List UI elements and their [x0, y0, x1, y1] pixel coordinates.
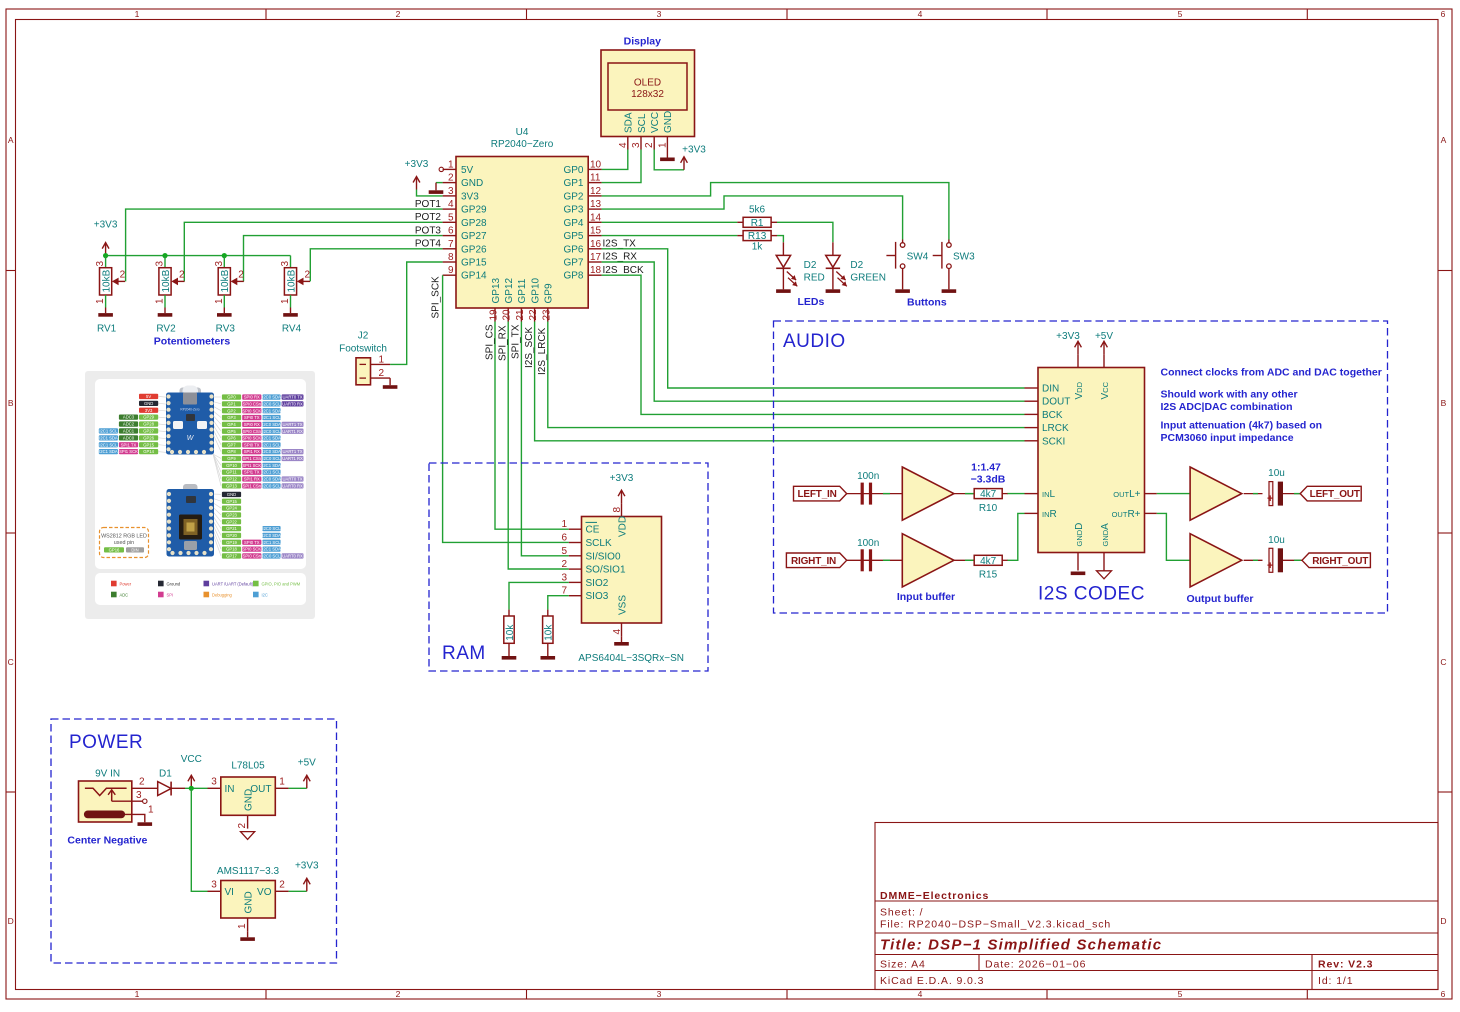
svg-text:SPI_TX: SPI_TX: [511, 324, 522, 359]
svg-text:File: RP2040−DSP−Small_V2.3.ki: File: RP2040−DSP−Small_V2.3.kicad_sch: [880, 919, 1111, 931]
svg-text:LEFT_OUT: LEFT_OUT: [1310, 489, 1360, 500]
svg-text:7: 7: [448, 239, 454, 250]
svg-text:DOUT: DOUT: [1042, 397, 1070, 408]
svg-text:Display: Display: [624, 36, 662, 48]
svg-text:UART0 TX: UART0 TX: [283, 395, 303, 400]
svg-text:14: 14: [590, 212, 602, 223]
wire POT3: [244, 236, 443, 282]
svg-text:GP6: GP6: [563, 244, 583, 255]
svg-text:100n: 100n: [857, 471, 879, 482]
svg-text:SW4: SW4: [907, 251, 929, 262]
svg-text:RP2040-Zero: RP2040-Zero: [180, 408, 199, 412]
svg-text:GP10: GP10: [530, 277, 541, 303]
svg-text:SPI1 RX: SPI1 RX: [244, 477, 260, 482]
pin 1 U4 (5V): [443, 168, 456, 170]
svg-text:DIN: DIN: [131, 547, 138, 552]
svg-text:VDD: VDD: [1074, 381, 1085, 399]
pin 3 U4 (3V3): [443, 195, 456, 197]
RAM section box: [429, 463, 708, 671]
svg-text:Should work with any other: Should work with any other: [1161, 389, 1298, 401]
svg-text:2: 2: [279, 880, 285, 891]
svg-text:5: 5: [448, 212, 454, 223]
pin 1 jack: [125, 814, 145, 822]
junction VCC: [189, 786, 194, 791]
ground RAM: [621, 636, 623, 642]
svg-text:I2S_SCK: I2S_SCK: [524, 327, 535, 368]
svg-text:GP13: GP13: [491, 277, 502, 303]
wire RV3 bottom: [223, 295, 225, 308]
resistor R13: [737, 235, 743, 237]
svg-text:8: 8: [448, 252, 454, 263]
pin 9 U4 (GP14): [443, 274, 456, 276]
svg-text:VCC: VCC: [1100, 381, 1111, 399]
global label RIGHT_OUT: [1302, 553, 1370, 568]
svg-text:Connect clocks from ADC and DA: Connect clocks from ADC and DAC together: [1161, 367, 1382, 379]
svg-text:I2C0 SDA: I2C0 SDA: [262, 477, 281, 482]
power +5V (codec): [1103, 342, 1105, 354]
power +3V3 (RAM): [621, 491, 623, 503]
svg-text:100n: 100n: [857, 538, 879, 549]
svg-text:10kB: 10kB: [220, 269, 231, 292]
wire VCC node: [185, 787, 208, 789]
wire I2S_RX (GP7) to DOUT: [602, 262, 1025, 401]
svg-text:SCL: SCL: [637, 113, 648, 133]
svg-text:I2C1 SCL: I2C1 SCL: [262, 540, 281, 545]
svg-text:Ground: Ground: [167, 581, 181, 586]
wire I2S_LRCK to LRCK: [548, 322, 1025, 428]
svg-text:GND: GND: [461, 178, 483, 189]
svg-text:10u: 10u: [1268, 535, 1285, 546]
svg-text:RV4: RV4: [282, 324, 302, 335]
svg-text:GP7: GP7: [227, 442, 236, 447]
svg-text:ADC1: ADC1: [123, 429, 135, 434]
svg-text:UART0 RX: UART0 RX: [282, 483, 303, 488]
svg-text:INL: INL: [1042, 489, 1056, 500]
wire R10 to INL: [1002, 493, 1008, 495]
svg-text:2: 2: [120, 270, 126, 281]
svg-text:GP17: GP17: [226, 553, 237, 558]
pin 23 U4 (GP9): [547, 308, 549, 322]
svg-text:GP26: GP26: [461, 244, 487, 255]
wire SIO2 pulldown: [509, 582, 569, 609]
svg-text:R10: R10: [979, 503, 998, 514]
svg-text:4: 4: [918, 989, 923, 999]
wire GP2 to SW3: [602, 183, 949, 240]
regulator U? L78L05: [221, 777, 275, 815]
svg-text:GND: GND: [144, 401, 153, 406]
svg-text:DMME−Electronics: DMME−Electronics: [880, 890, 989, 902]
svg-text:GP26: GP26: [143, 435, 154, 440]
wire buffer L out: [1244, 493, 1263, 495]
connector J2: [356, 358, 371, 385]
svg-text:12: 12: [590, 186, 602, 197]
pin 15 U4 (GP5): [588, 235, 601, 237]
svg-text:I2S_TX: I2S_TX: [603, 239, 637, 250]
svg-text:GP3: GP3: [563, 205, 583, 216]
svg-text:UART0 TX: UART0 TX: [283, 477, 303, 482]
svg-text:I2C1 SCL: I2C1 SCL: [262, 442, 281, 447]
pin 5 RAM (SI/SIO0): [569, 555, 582, 557]
pin 2 L78L05 GND: [247, 815, 249, 828]
svg-text:SCLK: SCLK: [586, 538, 612, 549]
svg-text:RIGHT_OUT: RIGHT_OUT: [1312, 556, 1368, 567]
svg-text:9V IN: 9V IN: [95, 769, 120, 780]
junction RV1 top: [103, 253, 108, 258]
svg-text:R15: R15: [979, 570, 998, 581]
wire 10u to RIGHT_OUT: [1283, 559, 1302, 561]
svg-text:C: C: [1440, 657, 1446, 667]
svg-text:RIGHT_IN: RIGHT_IN: [791, 556, 836, 567]
svg-text:Power: Power: [120, 581, 132, 586]
svg-text:Rev: V2.3: Rev: V2.3: [1318, 959, 1373, 971]
svg-text:VCC: VCC: [650, 112, 661, 133]
svg-text:SPI_SCK: SPI_SCK: [431, 276, 442, 319]
ground L78L05 (open triangle): [241, 832, 255, 840]
svg-text:+3V3: +3V3: [405, 159, 429, 170]
svg-text:GP15: GP15: [226, 499, 237, 504]
wire AMS1117 VO to +3V3: [289, 890, 307, 892]
wire RIGHT_IN to buffer: [847, 559, 903, 561]
svg-text:2: 2: [379, 368, 385, 379]
svg-text:3: 3: [155, 261, 166, 267]
svg-text:SPI: SPI: [167, 592, 174, 597]
svg-text:AUDIO: AUDIO: [783, 331, 846, 352]
capacitor 10u (right): [1269, 548, 1273, 572]
pin codec BCK: [1025, 413, 1039, 415]
svg-text:RED: RED: [804, 273, 825, 284]
wire GP14 / SPI_SCK: [443, 275, 569, 542]
svg-text:SPI0 RX: SPI0 RX: [244, 395, 260, 400]
svg-text:SPI0 SCK: SPI0 SCK: [242, 408, 261, 413]
pin 1 AMS1117 GND: [247, 918, 249, 931]
svg-text:5: 5: [1178, 9, 1183, 19]
svg-text:CE: CE: [586, 525, 600, 536]
svg-text:3: 3: [136, 790, 142, 801]
svg-text:2: 2: [644, 142, 655, 148]
junction RV3 top: [222, 253, 227, 258]
svg-text:I2C0 SCL: I2C0 SCL: [262, 526, 281, 531]
pin codec SCKI: [1025, 440, 1039, 442]
svg-text:I2S CODEC: I2S CODEC: [1038, 584, 1145, 605]
pin 2 jack: [132, 787, 158, 789]
svg-text:B: B: [8, 398, 14, 408]
svg-text:UART1 RX: UART1 RX: [282, 456, 303, 461]
svg-text:GND: GND: [663, 111, 674, 133]
ground RV1: [105, 308, 107, 314]
svg-text:3V3: 3V3: [461, 191, 479, 202]
svg-text:2: 2: [561, 559, 567, 570]
svg-text:6: 6: [1441, 9, 1446, 19]
svg-text:5: 5: [561, 546, 567, 557]
ground display: [666, 150, 668, 158]
title block: [875, 823, 1438, 990]
svg-text:3: 3: [657, 9, 662, 19]
power +3V3 (U4): [416, 178, 418, 190]
svg-text:SI/SIO0: SI/SIO0: [586, 551, 621, 562]
svg-text:GP0: GP0: [563, 165, 583, 176]
svg-text:POT2: POT2: [415, 212, 442, 223]
svg-text:2: 2: [238, 270, 244, 281]
global label LEFT_IN: [794, 486, 847, 501]
svg-text:KiCad E.D.A. 9.0.3: KiCad E.D.A. 9.0.3: [880, 975, 984, 987]
svg-text:+3V3: +3V3: [610, 473, 634, 484]
svg-text:ADC: ADC: [120, 592, 129, 597]
wire GP3 to SW4: [602, 196, 903, 240]
svg-text:GP4: GP4: [227, 422, 236, 427]
svg-text:1: 1: [214, 298, 225, 304]
svg-text:Input buffer: Input buffer: [897, 591, 955, 603]
svg-text:4: 4: [448, 199, 454, 210]
pin 3 RAM (SIO2): [569, 581, 582, 583]
svg-text:2: 2: [448, 173, 454, 184]
wire buffer R to R15: [954, 559, 975, 561]
svg-text:3V3: 3V3: [145, 408, 153, 413]
LED D2 RED: [782, 242, 784, 255]
svg-text:SPI0 CSn: SPI0 CSn: [243, 429, 262, 434]
svg-text:SPI1 CSn: SPI1 CSn: [243, 456, 262, 461]
svg-text:GP4: GP4: [563, 218, 583, 229]
svg-text:SPI1 CSn: SPI1 CSn: [243, 483, 262, 488]
svg-text:4k7: 4k7: [980, 556, 997, 567]
svg-text:2: 2: [139, 777, 145, 788]
svg-text:6: 6: [1441, 989, 1446, 999]
pin 10 U4 (GP0): [588, 168, 601, 170]
svg-text:GP28: GP28: [461, 218, 487, 229]
wire GP5 to R13: [602, 235, 738, 237]
svg-text:5V: 5V: [461, 165, 474, 176]
wire SPI_CS: [495, 322, 569, 530]
power +3V3 (codec): [1077, 342, 1079, 354]
svg-text:SO/SIO1: SO/SIO1: [586, 565, 626, 576]
svg-text:16: 16: [590, 239, 602, 250]
pin 12 U4 (GP2): [588, 195, 601, 197]
svg-text:SCKI: SCKI: [1042, 436, 1065, 447]
pin 3 Display (SCL): [640, 137, 642, 150]
svg-text:GP12: GP12: [504, 277, 515, 303]
svg-text:D2: D2: [804, 260, 817, 271]
svg-text:PCM3060 input impedance: PCM3060 input impedance: [1161, 432, 1294, 444]
ground RV2: [164, 308, 166, 314]
svg-text:GP1: GP1: [563, 178, 583, 189]
wire GP4 to R1: [602, 221, 738, 223]
svg-text:19: 19: [489, 309, 500, 321]
svg-text:I2C1 SCL: I2C1 SCL: [99, 442, 118, 447]
svg-text:GP10: GP10: [226, 463, 237, 468]
svg-text:3: 3: [95, 261, 106, 267]
pin codec DOUT: [1025, 400, 1039, 402]
svg-text:I2C0 SDA: I2C0 SDA: [262, 533, 281, 538]
resistor R1: [737, 221, 743, 223]
svg-text:POT4: POT4: [415, 239, 442, 250]
pin codec INR: [1025, 512, 1039, 514]
ground RV3: [223, 308, 225, 314]
svg-text:I2S_BCK: I2S_BCK: [603, 265, 644, 276]
svg-text:AMS1117−3.3: AMS1117−3.3: [217, 866, 280, 877]
svg-text:Title: DSP−1 Simplified Schema: Title: DSP−1 Simplified Schematic: [880, 937, 1162, 954]
power +3V3 (potentiometers): [105, 244, 107, 256]
svg-text:ADC3: ADC3: [123, 415, 135, 420]
pin 5 U4 (GP28): [443, 221, 456, 223]
svg-text:2: 2: [237, 823, 248, 829]
svg-text:10kB: 10kB: [101, 269, 112, 292]
svg-text:APS6404L−3SQRx−SN: APS6404L−3SQRx−SN: [578, 653, 684, 664]
component Display OLED body: [601, 50, 695, 137]
svg-text:1: 1: [561, 519, 567, 530]
svg-text:GP22: GP22: [226, 519, 237, 524]
svg-text:GP2: GP2: [227, 408, 236, 413]
svg-text:Input attenuation (4k7) based: Input attenuation (4k7) based on: [1161, 420, 1323, 432]
svg-text:GP28: GP28: [143, 422, 154, 427]
svg-text:Date: 2026−01−06: Date: 2026−01−06: [985, 959, 1086, 971]
op-amp input buffer L: [902, 467, 954, 520]
svg-text:10k: 10k: [505, 624, 516, 641]
svg-text:GP11: GP11: [226, 470, 237, 475]
svg-text:5k6: 5k6: [749, 204, 766, 215]
AUDIO section box: [774, 321, 1388, 613]
svg-text:Buttons: Buttons: [907, 297, 947, 309]
svg-text:VO: VO: [257, 887, 272, 898]
svg-text:GP11: GP11: [517, 278, 528, 303]
svg-text:2: 2: [305, 270, 311, 281]
svg-text:GND: GND: [243, 891, 254, 913]
svg-text:10u: 10u: [1268, 468, 1285, 479]
svg-text:1: 1: [657, 142, 668, 148]
svg-text:SPI1 TX: SPI1 TX: [121, 442, 137, 447]
svg-text:GP21: GP21: [226, 526, 237, 531]
pin 1 Display (GND): [666, 137, 668, 150]
svg-text:2: 2: [179, 270, 185, 281]
power +5V: [306, 776, 308, 788]
wire U4 3V3 pin 3: [417, 190, 443, 196]
ground 10k (SIO2): [508, 650, 510, 656]
svg-text:22: 22: [528, 309, 539, 321]
svg-text:3: 3: [448, 186, 454, 197]
pin 1 unconnected circle: [439, 167, 443, 171]
svg-text:1: 1: [379, 354, 385, 365]
svg-text:GP8: GP8: [227, 449, 236, 454]
wire LEFT_IN to buffer: [847, 493, 903, 495]
svg-text:3: 3: [657, 989, 662, 999]
wire buffer R out: [1244, 559, 1263, 561]
svg-text:SPI_RX: SPI_RX: [498, 325, 509, 361]
svg-text:GP18: GP18: [226, 547, 237, 552]
svg-text:GND: GND: [227, 492, 236, 497]
svg-text:OUTL+: OUTL+: [1113, 489, 1140, 500]
svg-text:U4: U4: [516, 127, 529, 138]
svg-text:5: 5: [1178, 989, 1183, 999]
svg-text:GP2: GP2: [563, 191, 583, 202]
pin 2 U4 (GND): [443, 182, 456, 184]
pin 7 RAM (SIO3): [569, 595, 582, 597]
pin codec GNDA: [1103, 553, 1105, 571]
svg-text:GP5: GP5: [563, 231, 583, 242]
wire POT4: [310, 249, 442, 282]
svg-text:10: 10: [590, 159, 602, 170]
switch SW3: [948, 240, 950, 243]
wire SPI_TX: [521, 322, 568, 556]
resistor 10k (SIO3): [547, 610, 549, 616]
svg-text:SPI0 RX: SPI0 RX: [244, 422, 260, 427]
svg-text:ADC0: ADC0: [123, 435, 135, 440]
svg-text:UART1 RX: UART1 RX: [282, 429, 303, 434]
svg-text:UART0 RX: UART0 RX: [282, 553, 303, 558]
svg-text:1: 1: [155, 298, 166, 304]
pin codec GNDD: [1077, 553, 1079, 571]
svg-text:D: D: [8, 916, 14, 926]
svg-text:+3V3: +3V3: [1056, 331, 1080, 342]
svg-text:A: A: [8, 135, 14, 145]
op-amp input buffer R: [902, 534, 954, 587]
svg-text:RP2040−Zero: RP2040−Zero: [491, 139, 554, 150]
svg-text:GP0: GP0: [227, 395, 236, 400]
wire VCC display to +3V3: [654, 150, 684, 170]
wire GP1 to SCL: [602, 150, 641, 183]
svg-text:Size: A4: Size: A4: [880, 959, 926, 971]
wire +3V3 pots bus: [106, 255, 291, 257]
svg-text:SIO2: SIO2: [586, 578, 609, 589]
pin 3 AMS1117 VI: [208, 890, 221, 892]
pin 6 U4 (GP27): [443, 235, 456, 237]
svg-text:VI: VI: [225, 887, 234, 898]
switch SW4: [902, 240, 904, 243]
svg-text:I2C0 SCL: I2C0 SCL: [262, 429, 281, 434]
svg-text:SPI0 SCK: SPI0 SCK: [242, 547, 261, 552]
svg-text:I2C0 SCL: I2C0 SCL: [262, 483, 281, 488]
svg-text:23: 23: [541, 309, 552, 321]
junction RV2 top: [162, 253, 167, 258]
pin 19 U4 (GP13): [494, 308, 496, 322]
pin codec INL: [1025, 493, 1039, 495]
svg-text:I2C1 SDA: I2C1 SDA: [262, 547, 281, 552]
ground RV4: [290, 308, 292, 314]
svg-text:SPI0 CSn: SPI0 CSn: [243, 401, 262, 406]
wire 10u to LEFT_OUT: [1283, 493, 1300, 495]
svg-text:LEFT_IN: LEFT_IN: [798, 489, 837, 500]
svg-text:1:1.47: 1:1.47: [971, 462, 1001, 474]
wire R13 to D2 RED: [777, 236, 783, 243]
svg-text:10kB: 10kB: [286, 269, 297, 292]
pin 21 U4 (GP11): [520, 308, 522, 322]
svg-text:D: D: [1440, 916, 1446, 926]
svg-text:D2: D2: [850, 260, 863, 271]
pin 17 U4 (GP7): [588, 261, 601, 263]
svg-text:A: A: [1441, 135, 1447, 145]
pin 2 AMS1117 VO: [275, 890, 288, 892]
potentiometer RV1: [105, 256, 107, 268]
svg-text:4: 4: [618, 142, 629, 148]
svg-text:I2C0 SCL: I2C0 SCL: [262, 401, 281, 406]
svg-text:DIN: DIN: [1042, 384, 1059, 395]
svg-text:1: 1: [279, 777, 285, 788]
op-amp output buffer R: [1190, 534, 1242, 587]
pin codec LRCK: [1025, 427, 1039, 429]
pin 1 L78L05 OUT: [275, 787, 288, 789]
svg-text:OLED: OLED: [634, 78, 661, 89]
svg-text:+3V3: +3V3: [94, 220, 118, 231]
svg-text:13: 13: [590, 199, 602, 210]
svg-text:Output buffer: Output buffer: [1186, 593, 1253, 605]
pin 20 U4 (GP12): [507, 308, 509, 322]
potentiometer RV2: [164, 256, 166, 268]
svg-text:10k: 10k: [544, 624, 555, 641]
pin 11 U4 (GP1): [588, 182, 601, 184]
pin codec OUTR+: [1145, 512, 1157, 514]
svg-text:GP8: GP8: [563, 271, 583, 282]
svg-text:L78L05: L78L05: [231, 760, 265, 771]
capacitor 100n (left): [861, 483, 864, 505]
svg-text:GP29: GP29: [461, 205, 487, 216]
component U? RAM body: [582, 517, 662, 624]
